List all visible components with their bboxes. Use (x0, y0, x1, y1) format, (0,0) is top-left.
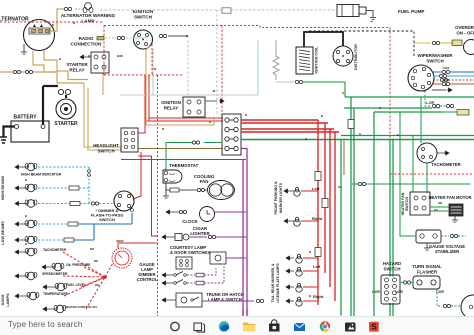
svg-text:HIGH BEAMS: HIGH BEAMS (1, 175, 5, 200)
wire red dashed long vertical x159 (157, 75, 159, 316)
wiper washer switch (408, 53, 453, 91)
svg-text:TACHOMETER: TACHOMETER (43, 248, 67, 252)
svg-text:SWITCH: SWITCH (99, 217, 115, 222)
fuse block (222, 114, 241, 155)
svg-text:FAN: FAN (200, 179, 209, 184)
svg-text:LIGHTER: LIGHTER (190, 231, 210, 236)
wire green tach feed (426, 163, 428, 193)
battery (11, 115, 49, 143)
taskbar (0, 316, 474, 335)
svg-text:RADIO: RADIO (79, 36, 94, 41)
ignition coil (296, 46, 319, 74)
svg-text:Left: Left (313, 264, 321, 269)
svg-text:MARKER LIGHTS: MARKER LIGHTS (279, 182, 283, 213)
ground thermostat (163, 183, 169, 198)
headlamp high right (15, 200, 114, 208)
svg-text:FRONT PARKING &: FRONT PARKING & (274, 181, 278, 215)
wire green bus y135 (341, 135, 474, 137)
svg-text:B/W: B/W (117, 54, 123, 58)
svg-text:Right: Right (312, 216, 323, 221)
wire gray fuel pump bus (100, 9, 337, 11)
cigar lighter (162, 226, 246, 241)
hazard switch (381, 261, 401, 304)
svg-text:B: B (25, 178, 27, 182)
svg-text:N: N (52, 23, 54, 27)
tail lamp row y301 (286, 294, 324, 306)
gauge lamp temperature (15, 277, 105, 300)
svg-text:WIPER/WASHER: WIPER/WASHER (418, 53, 454, 58)
svg-text:GY: GY (434, 208, 438, 212)
svg-text:LICENSE PLATE LAMPS: LICENSE PLATE LAMPS (276, 263, 280, 303)
mail (294, 323, 305, 331)
svg-text:W: W (154, 67, 157, 71)
wire red dashed y174 (390, 173, 474, 175)
wire green dashed flasher out (437, 289, 442, 306)
wire red dashed drop x390 (389, 28, 391, 230)
headlamp high left (15, 184, 89, 192)
svg-text:TACHOMETER: TACHOMETER (431, 162, 460, 167)
svg-text:TAIL, REAR MARKER, &: TAIL, REAR MARKER, & (271, 263, 275, 302)
fuse on green x351 (348, 120, 354, 129)
wire purple bottom drop (243, 309, 247, 316)
svg-text:RELAY: RELAY (164, 106, 179, 111)
trunk or hatch lamp and switch (162, 292, 264, 307)
ground starter relay (80, 55, 85, 59)
taskbar icons (0, 317, 474, 335)
ground wiper (432, 89, 446, 91)
svg-text:THERMOSTAT: THERMOSTAT (169, 163, 199, 168)
svg-text:STABILIZER: STABILIZER (435, 249, 459, 254)
svg-text:TURN SIGNAL: TURN SIGNAL (412, 264, 442, 269)
chrome (320, 321, 330, 331)
wire red to fuse block (145, 120, 223, 122)
wire green left feed x153 (133, 38, 153, 95)
svg-text:HIGH BEAM INDICATOR: HIGH BEAM INDICATOR (21, 173, 62, 177)
svg-text:RH: RH (94, 259, 98, 263)
svg-text:BATTERY: BATTERY (13, 115, 37, 121)
svg-text:G: G (379, 106, 381, 110)
svg-text:G: G (342, 91, 344, 95)
svg-text:LAMPS: LAMPS (6, 293, 10, 307)
starter relay (66, 52, 109, 73)
gauge lamp oil pressure (42, 263, 105, 277)
wires wiper right side (432, 71, 442, 73)
wire purple main left (121, 159, 246, 161)
svg-text:L/GR: L/GR (372, 290, 380, 294)
svg-text:HEATER FAN MOTOR: HEATER FAN MOTOR (428, 195, 471, 200)
cortana (171, 322, 179, 330)
overdrive switch (413, 25, 474, 55)
wire brown x344 (343, 140, 345, 175)
svg-text:OVERDRIVE: OVERDRIVE (455, 25, 474, 30)
wire tan ignition switch drop (146, 45, 214, 125)
wire red headlight to dimmer (133, 152, 141, 199)
cooling fan (166, 174, 235, 200)
svg-text:N: N (162, 127, 164, 131)
courtesy lamp and door switches (170, 245, 246, 269)
svg-text:B/GR: B/GR (117, 239, 124, 243)
svg-text:G: G (359, 132, 361, 136)
svg-text:SPEEDOMETER: SPEEDOMETER (42, 272, 68, 276)
ignition switch output connector (159, 34, 162, 37)
svg-text:SWITCH: SWITCH (426, 59, 443, 64)
svg-text:B: B (25, 214, 27, 218)
wire black dashed engine bus (309, 31, 414, 58)
wire brown wiper (433, 83, 442, 85)
wire brown headlight to fuse block (138, 148, 223, 150)
fuse on red x328 (322, 199, 328, 208)
wire green heater switch feed (412, 136, 414, 193)
svg-text:L-GR: L-GR (426, 101, 434, 105)
svg-text:N: N (245, 113, 247, 117)
fuel pump (337, 5, 424, 22)
wire red dashed top bus right (260, 26, 390, 28)
HT lead coil to distributor (304, 32, 343, 47)
headlight switch (93, 128, 138, 154)
svg-text:DASH: DASH (1, 294, 5, 305)
svg-text:LAMP: LAMP (81, 19, 94, 24)
fuses on red x318 (315, 172, 321, 181)
tachometer right (417, 143, 461, 167)
wire red dashed drop x104 (103, 26, 105, 76)
wire red dashed top bus (0, 21, 104, 23)
starter (54, 99, 78, 127)
wire green verticals (340, 140, 342, 316)
svg-text:ON - OFF: ON - OFF (456, 31, 474, 36)
svg-text:ALTERNATOR WARNING: ALTERNATOR WARNING (61, 13, 116, 18)
svg-text:IGNITION: IGNITION (161, 100, 181, 105)
cable battery positive (42, 86, 44, 125)
wire green thermostat branch (204, 142, 222, 144)
svg-text:R: R (321, 114, 323, 118)
svg-text:N: N (73, 21, 75, 25)
headlamp low left (15, 209, 134, 241)
radio connection (71, 36, 133, 47)
svg-text:G: G (397, 133, 399, 137)
svg-text:HEADLIGHT: HEADLIGHT (93, 143, 119, 148)
wire green bus y108 (344, 107, 432, 109)
svg-text:GN: GN (438, 201, 442, 205)
overdrive lockout connector (457, 110, 469, 116)
wire green dashed wiper park (425, 91, 431, 106)
wire red dimmer feed (118, 243, 158, 248)
svg-text:FUEL PUMP: FUEL PUMP (398, 9, 424, 14)
svg-text:N: N (445, 83, 447, 87)
wire red fused feeds right (241, 119, 318, 121)
store bag (269, 320, 280, 332)
wire red dashed horizontal y75 (104, 74, 183, 76)
ground ignition relay (205, 100, 217, 102)
wire tan battery feed (0, 71, 57, 73)
tail lamp row y271 (286, 264, 321, 276)
svg-text:RELAY: RELAY (69, 68, 84, 73)
svg-text:SWITCH: SWITCH (405, 197, 409, 212)
snagit S (369, 322, 379, 332)
svg-text:STARTER: STARTER (54, 121, 78, 127)
fuse on fuel pump line (222, 8, 231, 13)
svg-text:SWITCH: SWITCH (384, 267, 401, 272)
gauge voltage stabilizer (416, 230, 466, 254)
wire to coil low tension (276, 81, 294, 83)
thermostat (163, 163, 199, 183)
parking lamp right (284, 216, 323, 226)
svg-text:B: B (309, 294, 311, 298)
svg-text:B: B (88, 54, 90, 58)
wire red dashed wiper (433, 79, 440, 81)
node gauge convergence (105, 263, 113, 277)
gauge lamp fuel level (43, 277, 105, 291)
svg-text:OIL PRESSURE: OIL PRESSURE (66, 263, 91, 267)
gauge lamp dimmer control (112, 248, 158, 282)
svg-text:CONNECTION: CONNECTION (71, 42, 103, 47)
wire purple fused feed (241, 149, 247, 316)
clock (166, 207, 246, 225)
wire red headlight feed pair (138, 75, 145, 133)
speedometer partial (461, 295, 474, 319)
wire red dashed ignition feed (151, 44, 153, 75)
gauge lamp heater control (43, 277, 105, 313)
task view (194, 323, 205, 332)
wire green main bus y98 (345, 96, 474, 98)
edge (219, 321, 229, 331)
wire green stabilizer feed (400, 112, 416, 236)
wire tan relay drop (102, 73, 104, 95)
gauge lamp tachometer (15, 248, 105, 277)
svg-text:STARTER: STARTER (66, 62, 88, 67)
parking lamp left (284, 186, 320, 196)
svg-text:L/GR: L/GR (395, 290, 403, 294)
wire tan to headlight switch pair (84, 83, 122, 147)
svg-text:R: R (209, 120, 211, 124)
door switch right (162, 264, 224, 285)
heater fan switch (401, 192, 472, 215)
gauge lamp speedometer (15, 272, 105, 280)
svg-text:SWITCH: SWITCH (134, 15, 153, 20)
svg-text:HAZARD: HAZARD (383, 261, 401, 266)
svg-text:HEATER CONTROL RH: HEATER CONTROL RH (65, 305, 97, 309)
resistor ballast (273, 40, 279, 80)
svg-text:B: B (25, 242, 27, 246)
svg-text:B: B (59, 57, 61, 61)
svg-text:SWITCH: SWITCH (97, 149, 114, 154)
ground alternator (21, 44, 27, 54)
svg-text:RH: RH (90, 247, 94, 251)
dimmer flash-to-pass switch (91, 191, 134, 222)
wire tan alternator stairs (33, 51, 84, 83)
file explorer (243, 323, 255, 332)
svg-text:L/GN: L/GN (443, 66, 450, 70)
starter solenoid (58, 89, 63, 94)
wire green bus y112 (374, 111, 442, 113)
wire red dashed drop x222 (221, 26, 223, 116)
wire green y184 (351, 183, 470, 185)
svg-text:IGNITION COIL: IGNITION COIL (315, 46, 319, 74)
wire tan alternator output up (50, 9, 64, 31)
door switch left (162, 268, 216, 277)
wire red headlight feed down (138, 156, 158, 236)
tail lamp row y258 (286, 254, 318, 263)
alternator (0, 17, 55, 51)
svg-text:B: B (309, 250, 311, 254)
svg-text:B/GR: B/GR (443, 78, 450, 82)
wire yellow overdrive drop (412, 42, 414, 44)
svg-text:FLASHER: FLASHER (417, 270, 438, 275)
tail lamp row y287 (286, 283, 318, 292)
svg-text:LOW BEAMS: LOW BEAMS (1, 221, 5, 245)
wire pale green coil branch (257, 40, 259, 95)
svg-text:CONTROL: CONTROL (137, 277, 158, 282)
svg-text:Left: Left (312, 186, 320, 191)
svg-text:G: G (305, 137, 307, 141)
svg-text:GY: GY (338, 185, 342, 189)
high beam indicator (15, 163, 91, 204)
svg-text:DISTRIBUTOR: DISTRIBUTOR (354, 44, 358, 70)
photos cards (345, 323, 356, 332)
svg-text:W: W (213, 89, 216, 93)
turn signal flasher (400, 264, 442, 289)
ignition switch (133, 9, 154, 49)
svg-text:& DOOR SWITCHES: & DOOR SWITCHES (170, 250, 210, 255)
svg-text:Right: Right (313, 294, 324, 299)
svg-text:RH: RH (95, 283, 99, 287)
headlamp low right (15, 236, 94, 244)
heater fan motor (430, 204, 463, 222)
ignition relay (161, 97, 205, 117)
wire green fused feed right (241, 139, 474, 141)
wire gray drop to ignition relay (188, 10, 217, 114)
svg-text:S: S (371, 322, 377, 332)
alternator warning lamp (61, 3, 116, 24)
wire white W run (120, 94, 258, 96)
wire red bundle verticals (317, 120, 319, 305)
distributor (333, 44, 358, 70)
cable battery ground (4, 127, 15, 137)
svg-text:CLOCK: CLOCK (182, 219, 198, 224)
